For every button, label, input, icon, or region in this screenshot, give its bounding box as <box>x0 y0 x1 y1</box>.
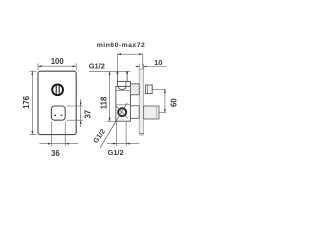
svg-text:176: 176 <box>22 95 31 109</box>
valve stem housing <box>117 71 127 81</box>
plate rectangle <box>38 71 76 134</box>
G1/2 leader diagonal <box>100 103 127 148</box>
bottom G1/2 dim line <box>107 143 139 145</box>
svg-text:37: 37 <box>83 110 92 119</box>
dim 10 line + tail <box>136 66 140 68</box>
lever plate <box>51 106 65 120</box>
dim 118 line <box>109 71 111 121</box>
extension line valve face <box>116 54 118 71</box>
svg-text:min60-max72: min60-max72 <box>97 42 146 49</box>
dim 176 arrows <box>31 71 33 75</box>
dim 37 arrows <box>80 102 82 106</box>
inlet ring <box>118 108 126 116</box>
dim 176 extension lines <box>29 71 36 134</box>
lower flange <box>130 106 139 119</box>
svg-text:36: 36 <box>51 149 60 158</box>
svg-text:G1/2: G1/2 <box>93 128 107 145</box>
outlet fitting <box>145 85 152 94</box>
dim 100 extension lines <box>38 63 76 70</box>
dim 118 arrows <box>109 71 111 75</box>
main body <box>116 86 130 121</box>
dim 10 extension lines <box>139 64 143 71</box>
dim 100 line <box>38 65 76 67</box>
bottom port extension lines <box>116 122 126 147</box>
dim 60 link lines <box>152 88 166 90</box>
dim 36 arrows <box>48 143 52 145</box>
dim 60 arrows <box>164 89 166 93</box>
knob slot lines <box>55 85 57 94</box>
dim min60-max72 line <box>117 53 142 55</box>
upper flange hatching <box>131 84 139 94</box>
cartridge dome <box>119 86 126 89</box>
through-wall block <box>144 106 159 119</box>
dim 176 line <box>31 71 33 134</box>
dim 60 line <box>164 89 166 112</box>
extension line wall face <box>142 54 144 69</box>
dim 36 line <box>40 143 79 145</box>
dim 100 arrows <box>38 65 42 67</box>
dim 36 extension lines <box>51 122 65 147</box>
lever dots <box>54 115 56 117</box>
wall plate <box>139 69 143 133</box>
dim min60-max72 arrows <box>117 53 121 55</box>
svg-text:100: 100 <box>51 57 65 66</box>
dim 37 extension lines <box>67 106 83 120</box>
svg-text:60: 60 <box>170 98 179 107</box>
knob circle <box>52 84 63 95</box>
bottom G1/2 arrows <box>113 143 117 145</box>
leader arrows up <box>116 71 118 74</box>
cartridge block <box>118 81 131 86</box>
dim 118 bottom extension <box>106 120 116 122</box>
svg-text:G1/2: G1/2 <box>89 62 105 71</box>
body inner line 1 <box>116 90 130 92</box>
svg-text:10: 10 <box>154 58 162 67</box>
upper flange <box>130 84 139 95</box>
X diagonal on ring <box>116 106 127 118</box>
dim 10 arrows <box>136 66 139 68</box>
wall plate bottom cap <box>139 132 144 134</box>
svg-text:118: 118 <box>100 96 109 109</box>
body inner line 2 <box>116 104 130 106</box>
dim 37 line <box>80 99 82 127</box>
svg-text:G1/2: G1/2 <box>108 148 124 157</box>
G1/2 top leader line <box>89 70 130 72</box>
